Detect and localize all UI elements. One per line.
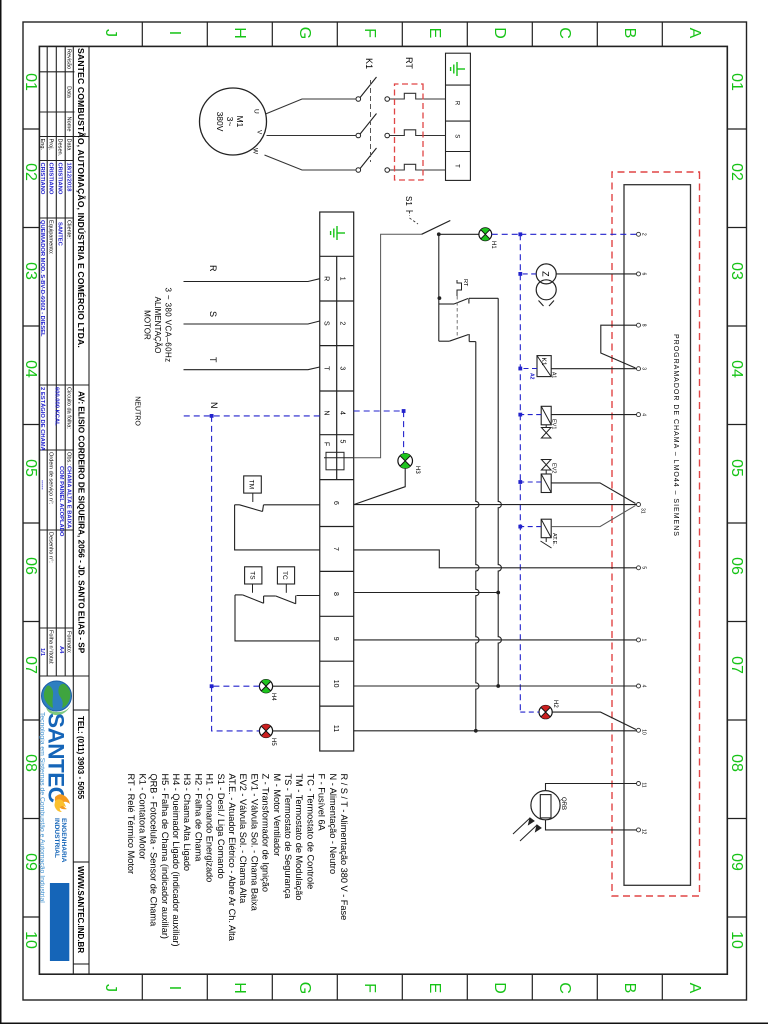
svg-text:01: 01 bbox=[22, 73, 39, 91]
svg-text:9: 9 bbox=[332, 637, 339, 641]
logo blue rectangle bar bbox=[50, 883, 69, 961]
svg-text:ENGENHARIA: ENGENHARIA bbox=[60, 818, 67, 863]
svg-text:8: 8 bbox=[332, 592, 339, 596]
blue dashed EV1 to neutral bus bbox=[520, 414, 541, 416]
EV1 valve symbol bbox=[541, 425, 551, 438]
svg-text:D: D bbox=[491, 27, 508, 39]
svg-text:06: 06 bbox=[728, 557, 745, 575]
blue dashed H1 to neutral bus bbox=[492, 233, 521, 235]
svg-text:07: 07 bbox=[728, 656, 745, 674]
svg-text:G: G bbox=[296, 982, 313, 994]
svg-text:Formato:: Formato: bbox=[66, 631, 72, 654]
supply feed wire S bbox=[184, 321, 320, 324]
svg-text:ALIMENTAÇÃO: ALIMENTAÇÃO bbox=[153, 297, 162, 354]
svg-text:C: C bbox=[556, 982, 573, 994]
K1 pole 2 bbox=[356, 114, 390, 138]
svg-text:04: 04 bbox=[728, 360, 745, 378]
svg-text:TEL: (011) 3903 - 5055: TEL: (011) 3903 - 5055 bbox=[76, 716, 85, 800]
svg-text:R: R bbox=[454, 101, 460, 106]
RT auxiliary thermal symbol bbox=[457, 280, 462, 296]
svg-text:Data: Data bbox=[66, 139, 72, 152]
lamp H1 bbox=[479, 228, 492, 241]
blue dashed control neutral bus bbox=[519, 234, 521, 712]
lamp H3 bbox=[398, 454, 413, 469]
svg-text:5: 5 bbox=[641, 566, 647, 569]
programmer terminal 2 bbox=[637, 232, 641, 236]
wire strip cell 6 to terminal 31 with hops bbox=[354, 504, 637, 506]
svg-text:N - Alimentação - Neutro: N - Alimentação - Neutro bbox=[328, 774, 338, 875]
svg-text:W: W bbox=[252, 148, 259, 155]
svg-text:03: 03 bbox=[22, 262, 39, 280]
grid row letters left bbox=[102, 27, 703, 39]
svg-text:F - Fusível 6A: F - Fusível 6A bbox=[317, 774, 327, 832]
svg-text:Proj.: Proj. bbox=[48, 139, 54, 151]
wire riser to auxiliary line a bbox=[469, 297, 498, 299]
blue dashed neutral riser to terminal 2 bbox=[520, 233, 636, 235]
grid tick marks bottom margin bbox=[23, 129, 39, 917]
svg-text:B: B bbox=[621, 28, 638, 39]
motor M1 bbox=[200, 88, 267, 155]
auxiliary long wire b with hops bbox=[476, 342, 479, 731]
svg-text:Revisão: Revisão bbox=[66, 49, 72, 69]
svg-text:AV: ELISIO CORDEIRO DE SIQUEIR: AV: ELISIO CORDEIRO DE SIQUEIRA, 2056 - … bbox=[77, 391, 86, 654]
svg-text:10: 10 bbox=[728, 931, 745, 949]
wire strip cell 10 to terminal 4b with hop bbox=[354, 685, 637, 687]
node contact A junction bbox=[438, 296, 442, 300]
svg-text:1: 1 bbox=[339, 277, 346, 281]
programmer terminal 10 bbox=[637, 728, 641, 732]
jumper terminal 8 to terminal 3 bbox=[601, 325, 637, 368]
wire EV1 to terminal 4 bbox=[551, 414, 636, 416]
programmer terminal 1 bbox=[637, 638, 641, 642]
svg-text:H2 - Falha de Chama: H2 - Falha de Chama bbox=[193, 774, 203, 863]
wire riser to auxiliary line b bbox=[469, 341, 476, 343]
svg-text:H5 - Falha de Chama (indicador: H5 - Falha de Chama (indicador auxiliar) bbox=[160, 774, 170, 939]
svg-text:6: 6 bbox=[332, 501, 339, 505]
svg-text:10: 10 bbox=[332, 680, 339, 688]
RT auxiliary contact B blade bbox=[439, 334, 469, 342]
node cell8 wire joins line a bbox=[496, 591, 500, 595]
strip terminal letters R S T N F bbox=[323, 276, 330, 446]
svg-text:H1: H1 bbox=[490, 241, 496, 249]
wire fuse F to switch S1 bbox=[354, 234, 422, 457]
svg-text:F: F bbox=[361, 983, 378, 993]
svg-text:TS - Termostato de Segurança: TS - Termostato de Segurança bbox=[283, 774, 293, 900]
motor supply terminal box bbox=[446, 53, 471, 180]
svg-text:1/1: 1/1 bbox=[39, 648, 45, 657]
supply box phase labels R S T bbox=[454, 101, 460, 168]
strip terminal numbers 6-11 bbox=[332, 501, 339, 732]
svg-text:3: 3 bbox=[641, 367, 647, 370]
svg-text:4: 4 bbox=[641, 685, 647, 688]
svg-text:Tecnologia em Sistemas de Comb: Tecnologia em Sistemas de Combustão e Au… bbox=[38, 712, 45, 903]
grid tick marks right margin bbox=[142, 974, 662, 1000]
node neutral bus junctions bbox=[518, 232, 522, 528]
programmer terminal 4 bbox=[637, 413, 641, 417]
K1 mechanical linkage dashed bbox=[370, 80, 372, 162]
svg-text:A4: A4 bbox=[58, 646, 64, 654]
svg-text:K1 - Contatora Motor: K1 - Contatora Motor bbox=[137, 774, 147, 860]
svg-text:RT: RT bbox=[404, 57, 414, 69]
solenoid valve coil EV1 bbox=[541, 406, 551, 425]
svg-text:A1: A1 bbox=[551, 372, 557, 378]
ground symbol in strip bbox=[331, 226, 345, 240]
svg-text:RT - Relé Térmico Motor: RT - Relé Térmico Motor bbox=[126, 774, 136, 875]
svg-text:H4 - Queimador Ligado (indicad: H4 - Queimador Ligado (indicador auxilia… bbox=[171, 774, 181, 947]
svg-text:NEUTRO: NEUTRO bbox=[134, 396, 141, 426]
blue dashed neutral bus elbow to H2 bbox=[520, 711, 539, 713]
svg-text:10: 10 bbox=[641, 729, 647, 735]
grid row letters right bbox=[102, 982, 703, 994]
TC TS loop wire to cell 9 bbox=[235, 595, 320, 641]
svg-text:M1: M1 bbox=[235, 116, 245, 128]
wire H3 to strip cell 6 bbox=[354, 468, 406, 504]
TM contact on cell 6 loop bbox=[235, 505, 320, 512]
signature table values bbox=[39, 163, 72, 195]
thermal overload RT red dashed box bbox=[395, 84, 424, 180]
svg-text:K1: K1 bbox=[540, 358, 547, 366]
svg-text:2 ESTÁGIO DE CHAMA: 2 ESTÁGIO DE CHAMA bbox=[39, 387, 46, 452]
wire strip cell 9 to terminal 1 with hops bbox=[354, 639, 637, 641]
svg-text:08: 08 bbox=[22, 754, 39, 772]
svg-text:Ordem de serviço n°:: Ordem de serviço n°: bbox=[48, 452, 54, 505]
TM loop wire to cell 7 bbox=[235, 505, 320, 550]
svg-text:H: H bbox=[231, 27, 248, 39]
svg-text:SANTEC: SANTEC bbox=[57, 222, 63, 247]
programmer terminal 11 bbox=[637, 782, 641, 786]
supply feed wire T bbox=[184, 367, 320, 370]
K1 pole 1 bbox=[356, 77, 390, 101]
svg-text:Obs.:: Obs.: bbox=[66, 452, 72, 466]
svg-text:A: A bbox=[686, 983, 703, 994]
svg-text:H3 - Chama Alta Ligado: H3 - Chama Alta Ligado bbox=[182, 774, 192, 872]
svg-text:11: 11 bbox=[641, 782, 647, 787]
svg-text:TC: TC bbox=[281, 571, 288, 580]
svg-text:B: B bbox=[621, 983, 638, 994]
supply feed wire R bbox=[184, 279, 320, 282]
svg-text:S1: S1 bbox=[404, 196, 413, 206]
svg-text:H5: H5 bbox=[270, 738, 276, 746]
svg-text:S: S bbox=[208, 311, 218, 317]
thermostat TS box bbox=[245, 567, 262, 584]
svg-text:S: S bbox=[454, 134, 460, 138]
svg-text:C: C bbox=[556, 27, 573, 39]
TS stem bbox=[252, 584, 254, 593]
svg-text:AT.E.: AT.E. bbox=[551, 533, 557, 546]
wire junction to lamp H1 bbox=[439, 233, 479, 235]
wire ATE to terminal 31 bbox=[551, 506, 635, 527]
svg-text:QUEIMADOR MOD. S-BV-D-600/2 -: QUEIMADOR MOD. S-BV-D-600/2 - DIESEL bbox=[39, 220, 45, 337]
svg-text:T: T bbox=[208, 357, 218, 363]
grid tick marks top margin bbox=[727, 129, 746, 917]
svg-text:I: I bbox=[166, 31, 183, 35]
grid column numbers bottom bbox=[22, 73, 39, 949]
electric actuator coil ATE bbox=[541, 519, 551, 538]
svg-text:05: 05 bbox=[728, 459, 745, 477]
svg-text:R / S / T - Alimentação 380 V: R / S / T - Alimentação 380 V - Fase bbox=[339, 774, 349, 921]
svg-text:09: 09 bbox=[728, 853, 745, 871]
TM stem bbox=[252, 493, 254, 502]
svg-text:RT: RT bbox=[462, 279, 468, 287]
svg-text:Desenho n°:: Desenho n°: bbox=[48, 532, 54, 563]
svg-text:H1 - Comando Energizado: H1 - Comando Energizado bbox=[205, 774, 215, 883]
svg-text:3~: 3~ bbox=[225, 117, 235, 127]
thermostat TM box bbox=[244, 476, 262, 493]
node H4 neutral junction bbox=[210, 684, 214, 688]
svg-text:TS: TS bbox=[249, 571, 256, 580]
svg-text:3: 3 bbox=[339, 366, 346, 370]
svg-text:EV1: EV1 bbox=[551, 419, 557, 429]
TC stem bbox=[285, 584, 287, 593]
grid column numbers top bbox=[728, 73, 745, 949]
solenoid valve coil EV2 bbox=[541, 474, 551, 493]
svg-text:18/12/2018: 18/12/2018 bbox=[66, 163, 72, 193]
SANTEC logo globe icon bbox=[42, 681, 73, 715]
thermostat TC box bbox=[277, 567, 294, 584]
svg-text:EV2: EV2 bbox=[551, 463, 557, 473]
svg-text:PROGRAMADOR DE CHAMA – LMO: PROGRAMADOR DE CHAMA – LMO44 – SIEMENS bbox=[672, 334, 679, 537]
programmer terminal 8 bbox=[637, 323, 641, 327]
svg-text:V: V bbox=[256, 130, 263, 135]
svg-text:05: 05 bbox=[22, 459, 39, 477]
svg-text:5: 5 bbox=[339, 440, 346, 444]
auxiliary long wire a with hops bbox=[498, 298, 501, 686]
svg-text:WWW.SANTEC.IND.BR: WWW.SANTEC.IND.BR bbox=[76, 866, 85, 953]
wire cell 10 to H4 bbox=[273, 685, 320, 687]
wire phase R box to RT bbox=[390, 93, 446, 99]
wire H2 to terminal 10 bbox=[552, 712, 636, 729]
svg-text:INDUSTRIAL: INDUSTRIAL bbox=[53, 818, 60, 858]
svg-text:Circuito da folha:: Circuito da folha: bbox=[66, 387, 72, 429]
svg-text:I: I bbox=[166, 986, 183, 990]
wire QRB to terminal 12 bbox=[546, 820, 637, 830]
ignition transformer Z bbox=[536, 264, 556, 306]
switch S1 blade bbox=[422, 221, 451, 235]
page edge scan marks bbox=[0, 0, 2, 1024]
svg-text:600.000 KCAL: 600.000 KCAL bbox=[54, 387, 60, 426]
svg-text:Desen.: Desen. bbox=[57, 139, 63, 157]
svg-text:-----: ----- bbox=[39, 480, 45, 490]
svg-text:CHAMA ALTA E BAIXA: CHAMA ALTA E BAIXA bbox=[66, 466, 72, 529]
svg-text:N: N bbox=[323, 410, 330, 415]
terminal strip outline bbox=[320, 212, 354, 751]
svg-text:U: U bbox=[253, 109, 260, 114]
svg-text:SANTEC: SANTEC bbox=[44, 713, 69, 803]
svg-text:02: 02 bbox=[22, 163, 39, 181]
lamp H2 bbox=[539, 705, 552, 718]
svg-text:06: 06 bbox=[22, 557, 39, 575]
node N feed junction bbox=[210, 414, 214, 418]
svg-text:Equipamento:: Equipamento: bbox=[48, 220, 54, 255]
ground symbol in supply box bbox=[451, 62, 465, 76]
svg-text:1: 1 bbox=[641, 639, 647, 642]
svg-text:R: R bbox=[323, 276, 330, 281]
svg-text:CRISTIANO: CRISTIANO bbox=[48, 163, 54, 195]
svg-text:Nome: Nome bbox=[66, 117, 72, 132]
svg-text:T: T bbox=[323, 366, 330, 371]
photocell QRB bbox=[531, 791, 560, 820]
svg-text:SANTEC COMBUSTÃO, AUTOMAÇÃO, I: SANTEC COMBUSTÃO, AUTOMAÇÃO, INDÚSTRIA E… bbox=[76, 48, 87, 348]
programmer red dashed enclosure bbox=[612, 172, 700, 896]
programmer unit outline U1 bbox=[624, 185, 691, 886]
svg-text:10: 10 bbox=[22, 931, 39, 949]
svg-text:A: A bbox=[686, 28, 703, 39]
svg-text:Eng.: Eng. bbox=[39, 139, 45, 151]
svg-text:T: T bbox=[454, 164, 460, 168]
svg-text:2: 2 bbox=[641, 233, 647, 236]
svg-text:H3: H3 bbox=[414, 466, 420, 474]
svg-text:380V: 380V bbox=[215, 112, 225, 132]
programmer terminal 5 bbox=[637, 566, 641, 570]
svg-text:12: 12 bbox=[641, 829, 647, 835]
svg-text:TC - Termostato de Controle: TC - Termostato de Controle bbox=[305, 774, 315, 890]
wire K1 pole2 to motor V bbox=[267, 135, 357, 137]
svg-text:H4: H4 bbox=[270, 693, 276, 701]
node N-H3 branch bbox=[402, 409, 406, 413]
svg-text:Folha n°/total:: Folha n°/total: bbox=[48, 630, 54, 665]
svg-text:Z - Transformador de Ignição: Z - Transformador de Ignição bbox=[261, 774, 271, 892]
svg-text:CRISTIANO: CRISTIANO bbox=[39, 163, 45, 195]
svg-text:EV2 - Válvula Sol. - Chama Alt: EV2 - Válvula Sol. - Chama Alta bbox=[238, 774, 248, 905]
RT auxiliary mechanical dashed link bbox=[456, 296, 458, 338]
grid tick marks left margin bbox=[142, 22, 662, 46]
ATE actuator mark bbox=[541, 538, 552, 548]
svg-text:QRB: QRB bbox=[560, 797, 566, 810]
svg-text:F: F bbox=[361, 28, 378, 38]
blue dashed EV2 to neutral bus bbox=[520, 481, 541, 483]
programmer terminal 4b bbox=[637, 684, 641, 688]
signature table labels bbox=[39, 139, 72, 157]
blue dashed H4 branch bbox=[212, 685, 260, 687]
wire terminal 3 to K1 coil bbox=[551, 368, 636, 370]
wire EV2 to terminal 31 bbox=[551, 483, 635, 504]
svg-text:F: F bbox=[323, 442, 330, 446]
title block outline bbox=[39, 46, 89, 974]
svg-text:EV1 - Válvula Sol. - Chama Bai: EV1 - Válvula Sol. - Chama Baixa bbox=[249, 774, 259, 912]
svg-text:E: E bbox=[426, 28, 443, 39]
control phase wire S1 to RT contacts bbox=[438, 234, 440, 341]
blue dashed neutral bus lower bbox=[212, 416, 260, 731]
programmer terminal 6 bbox=[637, 272, 641, 276]
RT auxiliary contact A blade bbox=[439, 298, 469, 304]
svg-text:3 ~ 380 VCA–60Hz: 3 ~ 380 VCA–60Hz bbox=[164, 287, 173, 362]
blue dashed Z to neutral bus bbox=[520, 273, 536, 275]
svg-text:6: 6 bbox=[641, 273, 647, 276]
node line b joins cell11 wire bbox=[474, 729, 478, 733]
svg-text:R: R bbox=[208, 265, 218, 272]
svg-text:08: 08 bbox=[728, 754, 745, 772]
blue dashed neutral feed N bbox=[184, 415, 320, 417]
wire phase S box to RT bbox=[390, 130, 446, 136]
QRB light arrows bbox=[513, 818, 541, 841]
svg-text:09: 09 bbox=[22, 853, 39, 871]
wire cell 11 to H5 bbox=[273, 730, 320, 732]
wire strip cell 7 to terminal 5 jog and hops bbox=[354, 550, 637, 568]
svg-text:11: 11 bbox=[332, 725, 339, 732]
switch S1 manual actuator mark bbox=[406, 211, 418, 224]
svg-text:TM - Termostato de Modulação: TM - Termostato de Modulação bbox=[294, 774, 304, 901]
logo flame icon bbox=[55, 794, 71, 812]
svg-text:TM: TM bbox=[248, 480, 255, 489]
svg-text:4: 4 bbox=[339, 411, 346, 415]
svg-text:31: 31 bbox=[640, 508, 646, 514]
programmer terminal 31 bbox=[637, 503, 641, 507]
svg-text:Cliente:: Cliente: bbox=[66, 220, 72, 239]
fuse F symbol bbox=[324, 452, 354, 470]
svg-text:03: 03 bbox=[728, 262, 745, 280]
EV2 valve symbol bbox=[541, 460, 551, 475]
wire K1 pole1 to motor U bbox=[266, 99, 357, 114]
node S1-H1 junction bbox=[437, 232, 441, 236]
svg-text:J: J bbox=[102, 29, 119, 37]
lamp H4 bbox=[259, 680, 272, 693]
svg-text:Z: Z bbox=[541, 271, 551, 277]
wire K1 pole3 to motor W bbox=[265, 155, 357, 170]
blue dashed N to H3 bbox=[354, 411, 404, 453]
wire Z to terminal 6 bbox=[556, 273, 636, 275]
programmer terminal 3 bbox=[637, 367, 641, 371]
svg-text:07: 07 bbox=[22, 656, 39, 674]
svg-text:COM PAINEL ACOPLADO: COM PAINEL ACOPLADO bbox=[58, 466, 64, 537]
revision table headers bbox=[66, 49, 72, 132]
svg-text:04: 04 bbox=[22, 360, 39, 378]
svg-text:4: 4 bbox=[641, 413, 647, 416]
svg-text:M - Motor Ventilador: M - Motor Ventilador bbox=[272, 774, 282, 857]
svg-text:01: 01 bbox=[728, 73, 745, 91]
svg-text:2: 2 bbox=[339, 321, 346, 325]
wire QRB to terminal 11 bbox=[546, 784, 637, 791]
svg-text:K1: K1 bbox=[364, 58, 374, 69]
node cell10 wire joins line a bbox=[496, 684, 500, 688]
svg-text:H2: H2 bbox=[552, 700, 558, 708]
contactor coil K1 bbox=[537, 356, 551, 377]
svg-text:S1 - Desl./ Liga Comando: S1 - Desl./ Liga Comando bbox=[216, 774, 226, 879]
svg-text:J: J bbox=[102, 984, 119, 992]
wire strip cell 11 to terminal 10 bbox=[354, 730, 637, 732]
svg-text:AT.E. - Atuador Elétrico - Abr: AT.E. - Atuador Elétrico - Abre Ar Ch. A… bbox=[227, 774, 237, 942]
svg-text:E: E bbox=[426, 983, 443, 994]
svg-text:8: 8 bbox=[641, 324, 647, 327]
svg-text:G: G bbox=[296, 27, 313, 39]
svg-text:D: D bbox=[491, 982, 508, 994]
svg-text:7: 7 bbox=[332, 547, 339, 551]
svg-text:CRISTIANO: CRISTIANO bbox=[57, 163, 63, 195]
svg-text:A2: A2 bbox=[529, 373, 535, 380]
wire strip cell 8 to line a with hop bbox=[354, 592, 499, 594]
TC TS contact chain on cell 8 loop bbox=[235, 595, 320, 604]
svg-text:MOTOR: MOTOR bbox=[143, 310, 152, 340]
svg-text:N: N bbox=[209, 402, 219, 409]
strip terminal numbers 1-5 bbox=[339, 277, 346, 444]
svg-text:H: H bbox=[231, 982, 248, 994]
programmer terminal 12 bbox=[637, 828, 641, 832]
svg-text:Data: Data bbox=[66, 86, 72, 99]
svg-text:02: 02 bbox=[728, 163, 745, 181]
wire phase T box to RT bbox=[390, 164, 446, 170]
wire contact A riser bbox=[438, 303, 440, 305]
K1 pole 3 bbox=[356, 148, 390, 172]
blue dashed K1 coil to neutral bus bbox=[520, 368, 537, 370]
lamp H5 bbox=[259, 724, 272, 737]
svg-text:S: S bbox=[323, 321, 330, 326]
svg-text:QRB - Fotocelula - Sensor de C: QRB - Fotocelula - Sensor de Chama bbox=[149, 774, 159, 928]
blue dashed ATE to neutral bus bbox=[520, 526, 541, 528]
